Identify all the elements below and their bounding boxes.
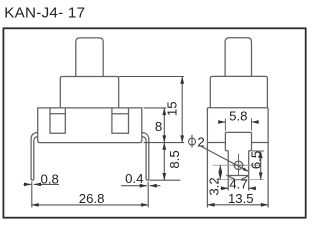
svg-text:26.8: 26.8 [79,191,105,206]
crosshair vertical [238,154,240,176]
boss jogs [225,150,228,152]
svg-text:0.4: 0.4 [125,171,143,186]
right leg [142,132,149,180]
extension body top y=107.8 [144,107,167,109]
svg-text:8.5: 8.5 [167,150,182,168]
svg-text:4.7: 4.7 [229,176,247,191]
dim 6.5 [260,151,262,180]
dim 0.8 [24,183,32,185]
boss lower sides / 4.7 extensions [227,151,229,191]
dim 13.5 [207,204,268,206]
svg-text:3.2: 3.2 [207,177,222,195]
dim 3.2 [219,165,221,179]
svg-text:8: 8 [155,119,162,134]
extension collar top y=76.4 [119,76,184,78]
dim 4.7 [221,187,229,189]
extension y=151 [252,150,264,152]
dim 8.5 [163,143,165,181]
leader phi2 [202,147,249,172]
right view plunger [225,38,251,77]
dim 0.4 [121,185,147,187]
5.8 extension stubs [224,118,226,130]
extension 26.8 left [31,182,33,208]
left view notch right [112,108,129,133]
cup notch [228,176,248,180]
border frame [3,28,305,217]
cup top [226,175,249,177]
svg-text:13.5: 13.5 [228,191,254,206]
svg-text:5.8: 5.8 [229,108,247,123]
svg-text:0.8: 0.8 [41,171,59,186]
svg-text:2: 2 [197,134,204,149]
left view notch left [50,108,65,133]
phi symbol [189,138,196,145]
extension body bottom y=142.5 [144,142,185,144]
dim 15 [181,77,183,143]
right view shelf [207,142,225,144]
svg-text:KAN-J4- 17: KAN-J4- 17 [4,4,85,21]
dim 5.8 [221,121,226,123]
dim 8 [163,108,165,143]
boss upper sides [224,132,226,150]
right view body sides + 13.5 extensions [206,108,208,208]
dim texts [41,101,264,206]
svg-text:6.5: 6.5 [249,151,264,169]
hole circle [234,161,242,169]
extension foot y=180.2 [149,179,180,181]
centerline horizontal grey [213,164,260,166]
extension y=179.6 [216,179,264,181]
extension 26.8 right [147,182,149,208]
right view body top [207,107,268,109]
left view collar [60,77,118,108]
right view collar [210,76,267,107]
left view plunger [76,38,103,77]
dim 26.8 [32,204,149,206]
boss top [225,131,251,133]
svg-text:15: 15 [165,101,180,116]
left view body [38,108,142,143]
left leg [31,132,38,180]
